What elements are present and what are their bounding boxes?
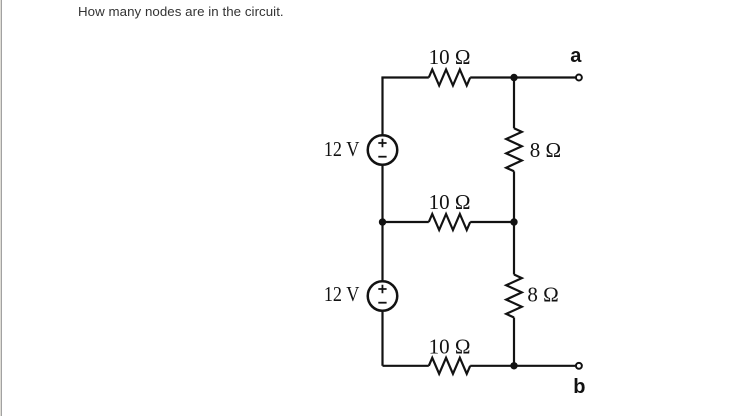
- wire: R4 to bottom node: [513, 318, 515, 366]
- wire: R1 to node at top of 8-ohm: [470, 76, 514, 78]
- wire: right rail top node to R3: [513, 78, 515, 129]
- svg-text:8 Ω: 8 Ω: [527, 283, 558, 307]
- wire: V2 to bottom-left corner: [381, 312, 383, 366]
- V2 minus sign: [378, 302, 386, 304]
- wire: bottom-left corner to R5: [383, 365, 429, 367]
- wire: left rail top (corner to source V1): [381, 78, 383, 135]
- wire: node to terminal a: [514, 76, 576, 78]
- resistor R3 8 ohm (upper right): [506, 128, 522, 171]
- terminal b open circle: [576, 363, 582, 369]
- wire: R2 to middle-right node: [470, 221, 514, 223]
- voltage source V2 12V circle: [368, 281, 398, 311]
- wire: R5 to bottom node: [470, 365, 514, 367]
- svg-text:8 Ω: 8 Ω: [530, 138, 561, 162]
- svg-text:10 Ω: 10 Ω: [429, 190, 471, 214]
- wire: middle-right node to R4: [513, 222, 515, 275]
- wire: bottom node to terminal b: [514, 365, 576, 367]
- wire: middle node to source V2: [381, 222, 383, 280]
- V2 plus sign: [378, 285, 386, 294]
- voltage source V1 12V circle: [368, 135, 398, 165]
- V1 minus sign: [378, 156, 386, 158]
- resistor R2 10 ohm (middle): [429, 214, 470, 230]
- wire: V1 to middle node: [381, 166, 383, 222]
- resistor R5 10 ohm (bottom): [429, 358, 470, 374]
- node junction dot (top, node between R1, R3, terminal a): [510, 74, 517, 81]
- node junction dot (middle-right): [510, 218, 517, 225]
- svg-text:a: a: [570, 45, 582, 67]
- svg-text:10 Ω: 10 Ω: [429, 334, 471, 358]
- svg-text:10 Ω: 10 Ω: [429, 45, 471, 69]
- wire: top-left corner to R1: [383, 78, 429, 79]
- svg-text:12 V: 12 V: [324, 282, 360, 306]
- V1 plus sign: [378, 139, 386, 148]
- node junction dot (middle-left): [379, 218, 386, 225]
- resistor R4 8 ohm (lower right): [506, 275, 522, 318]
- svg-text:12 V: 12 V: [324, 137, 360, 161]
- svg-text:b: b: [573, 376, 585, 398]
- node junction dot (bottom): [510, 362, 517, 369]
- terminal a open circle: [576, 75, 582, 81]
- resistor R1 10 ohm (top): [429, 70, 470, 86]
- wire: R3 to middle-right node: [513, 171, 515, 222]
- wire: middle node to R2: [383, 221, 429, 223]
